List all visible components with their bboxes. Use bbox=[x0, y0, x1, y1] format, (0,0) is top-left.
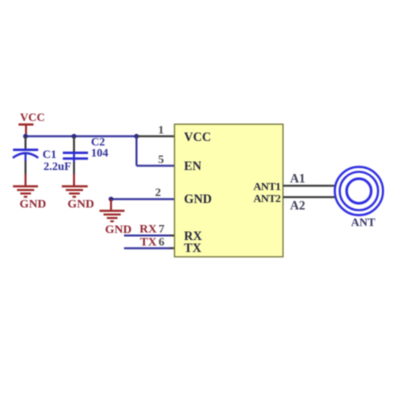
svg-text:A1: A1 bbox=[290, 172, 305, 186]
ground symbol below C1 bbox=[13, 174, 47, 211]
pin 1 stub (VCC) bbox=[137, 135, 176, 137]
node junction at pin 1 corner bbox=[134, 134, 139, 139]
ground symbol on pin 2 net bbox=[100, 199, 133, 236]
net label TX bbox=[140, 235, 157, 249]
wire VCC rail bbox=[26, 135, 137, 137]
net label RX bbox=[140, 222, 158, 236]
svg-text:GND: GND bbox=[68, 196, 95, 210]
svg-text:5: 5 bbox=[158, 152, 164, 166]
C2 designator label bbox=[91, 136, 105, 148]
svg-text:C2: C2 bbox=[91, 136, 105, 148]
pin label A1 bbox=[290, 172, 305, 186]
pin number 2 bbox=[155, 185, 161, 199]
pin label A2 bbox=[290, 199, 305, 213]
pin A1 wire (ANT1) bbox=[283, 185, 335, 187]
svg-text:TX: TX bbox=[140, 235, 157, 249]
svg-text:ANT1: ANT1 bbox=[253, 181, 280, 193]
C2 value label 104 bbox=[91, 148, 109, 160]
antenna ANT bbox=[335, 167, 383, 215]
svg-text:A2: A2 bbox=[290, 199, 305, 213]
IC pin name TX bbox=[184, 241, 201, 255]
ANT name label bbox=[351, 217, 376, 229]
svg-text:ANT: ANT bbox=[351, 217, 376, 229]
wire pin 1 corner to EN bbox=[136, 136, 138, 165]
svg-text:2.2uF: 2.2uF bbox=[44, 161, 72, 173]
C1 designator label bbox=[43, 149, 57, 161]
svg-text:ANT2: ANT2 bbox=[253, 193, 281, 205]
pin number 1 bbox=[158, 123, 164, 137]
pin number 5 bbox=[158, 152, 164, 166]
svg-text:2: 2 bbox=[155, 185, 161, 199]
IC pin name ANT2 bbox=[253, 193, 281, 205]
pin 5 wire (EN) bbox=[137, 165, 176, 167]
IC pin name RX bbox=[184, 229, 202, 243]
svg-text:EN: EN bbox=[184, 159, 201, 173]
wire pin 2 (GND net) bbox=[111, 198, 175, 200]
capacitor C2 bbox=[63, 136, 88, 174]
IC pin name EN bbox=[184, 159, 201, 173]
svg-text:VCC: VCC bbox=[20, 112, 45, 124]
pin A2 wire (ANT2) bbox=[283, 196, 335, 198]
IC pin name ANT1 bbox=[253, 181, 280, 193]
ground symbol below C2 bbox=[62, 174, 95, 210]
node junction at C2 bbox=[72, 134, 77, 139]
IC pin name GND bbox=[184, 192, 212, 206]
node junction at VCC/C1 bbox=[23, 134, 28, 139]
capacitor C1 bbox=[13, 136, 38, 174]
pin number 6 bbox=[159, 235, 165, 249]
svg-text:GND: GND bbox=[184, 192, 212, 206]
power flag VCC bbox=[19, 112, 45, 136]
C1 value label 2.2uF bbox=[44, 161, 72, 173]
wire RX to pin 7 bbox=[124, 235, 175, 237]
IC U1 body bbox=[175, 124, 284, 257]
svg-text:C1: C1 bbox=[43, 149, 57, 161]
svg-text:104: 104 bbox=[91, 148, 109, 160]
svg-text:GND: GND bbox=[20, 197, 47, 211]
svg-text:6: 6 bbox=[159, 235, 165, 249]
svg-text:1: 1 bbox=[158, 123, 164, 137]
node junction at GND net bbox=[109, 197, 114, 202]
IC pin name VCC bbox=[184, 130, 211, 144]
svg-text:GND: GND bbox=[105, 222, 132, 236]
pin number 7 bbox=[159, 222, 165, 236]
wire TX to pin 6 bbox=[124, 247, 175, 249]
svg-text:VCC: VCC bbox=[184, 130, 211, 144]
svg-text:TX: TX bbox=[184, 241, 201, 255]
